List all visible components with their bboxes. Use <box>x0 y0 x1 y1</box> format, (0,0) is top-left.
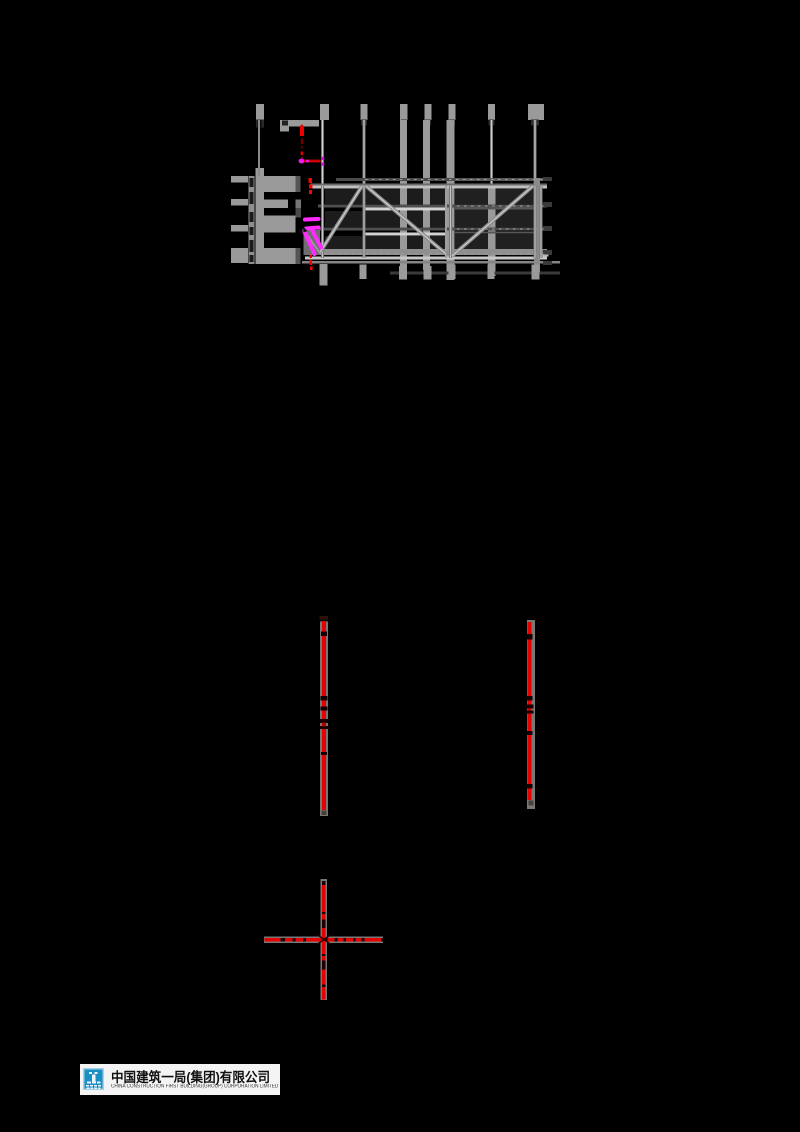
red dashed annotation (top) <box>300 125 304 159</box>
horizontal dark core <box>265 938 383 942</box>
diagonals <box>319 186 533 256</box>
extra vertical at 446 <box>445 186 447 258</box>
magenta end marks <box>321 157 324 160</box>
left line red core <box>322 621 326 810</box>
horizontal red dashes <box>265 938 382 942</box>
column caps <box>256 104 544 120</box>
thin column stems (cap to truss) <box>258 120 260 176</box>
left line halo <box>320 616 328 816</box>
bottom chord bright <box>305 257 547 260</box>
rail 2 bright segments <box>365 208 447 211</box>
magenta highlight strokes <box>305 219 322 254</box>
dark arrow blob <box>303 227 308 233</box>
emblem glyph <box>86 1072 101 1089</box>
wide gray posts <box>400 120 496 280</box>
top horizontal bar (ledger) <box>280 120 319 127</box>
faint fill bands across truss <box>325 189 541 252</box>
vertical dark core <box>322 881 326 999</box>
center X mark <box>317 935 331 945</box>
right line halo <box>527 620 535 809</box>
bright tick dashes on dark rails <box>310 180 547 255</box>
red dashes left of truss <box>309 178 313 270</box>
bottom chord thick gray <box>310 249 547 255</box>
vertical halo <box>321 879 328 1000</box>
horizontal halo <box>264 937 383 944</box>
right line red core <box>528 622 532 800</box>
magenta dot <box>299 159 305 164</box>
rail 2 dark <box>318 205 547 208</box>
truss verticals (bright) <box>323 186 542 258</box>
right big blocks <box>264 176 296 192</box>
middle text column marks <box>249 176 255 264</box>
column feet <box>319 264 539 286</box>
red horizontal line <box>304 160 321 163</box>
left line dark ticks <box>320 632 329 756</box>
top chord <box>310 184 547 186</box>
dark marks under caps <box>256 120 539 128</box>
dark rail above top chord <box>336 178 547 181</box>
right dark stubs <box>543 177 552 265</box>
vertical red dashes <box>322 885 326 1000</box>
vertical gray bar <box>256 168 265 264</box>
rail 3 dark <box>318 228 547 231</box>
left small bars <box>231 176 248 183</box>
gray backing panel behind magenta <box>304 230 321 255</box>
right line dark ticks <box>526 634 534 789</box>
blue emblem <box>80 1064 280 1095</box>
lower rail <box>302 261 560 264</box>
wide right post <box>534 178 540 272</box>
left dimension-text cluster <box>231 168 301 264</box>
rail 3 bright <box>365 233 447 236</box>
